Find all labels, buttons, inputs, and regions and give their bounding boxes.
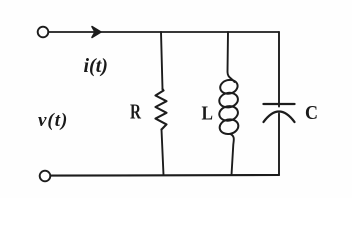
- svg-text:i(t): i(t): [84, 55, 108, 77]
- svg-text:L: L: [202, 103, 214, 125]
- svg-text:C: C: [305, 102, 318, 124]
- svg-text:R: R: [130, 100, 142, 124]
- svg-text:v(t): v(t): [38, 110, 68, 131]
